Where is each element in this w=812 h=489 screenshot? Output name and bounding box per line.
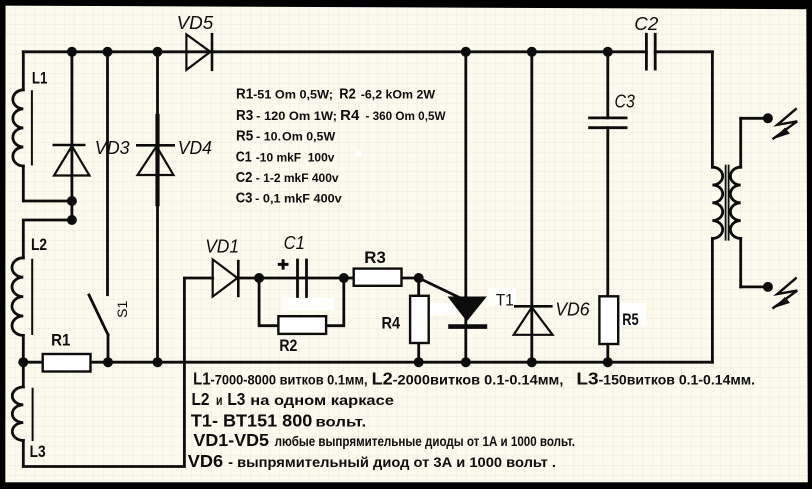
svg-text:L2: L2 [31, 236, 47, 254]
svg-text:R4: R4 [382, 315, 401, 333]
svg-text:S1: S1 [114, 301, 130, 318]
svg-text:T1: T1 [496, 290, 514, 309]
svg-text:L3: L3 [30, 443, 46, 461]
svg-text:C1-10 mkF 100v: C1-10 mkF 100v [236, 149, 335, 165]
svg-text:VD1: VD1 [205, 237, 239, 257]
svg-text:L1: L1 [32, 70, 48, 88]
svg-text:R3- 120 Om 1W;R4- 360 Om 0,5W: R3- 120 Om 1W;R4- 360 Om 0,5W [236, 108, 446, 124]
svg-text:VD5: VD5 [177, 13, 215, 33]
svg-text:R3: R3 [364, 249, 386, 267]
svg-text:C2- 1-2 mkF 400v: C2- 1-2 mkF 400v [236, 170, 339, 186]
svg-text:VD3: VD3 [95, 138, 130, 158]
svg-text:C3- 0,1 mkF 400v: C3- 0,1 mkF 400v [236, 191, 342, 207]
svg-text:C2: C2 [634, 14, 658, 34]
svg-text:VD6: VD6 [555, 300, 590, 320]
svg-text:C1: C1 [284, 233, 305, 253]
svg-text:C3: C3 [615, 91, 635, 111]
svg-text:R1: R1 [51, 332, 70, 350]
svg-text:R5- 10. Om 0,5W: R5- 10. Om 0,5W [236, 129, 335, 145]
svg-text:R2: R2 [279, 337, 297, 355]
svg-text:R5: R5 [622, 311, 638, 329]
svg-text:VD4: VD4 [178, 138, 212, 158]
